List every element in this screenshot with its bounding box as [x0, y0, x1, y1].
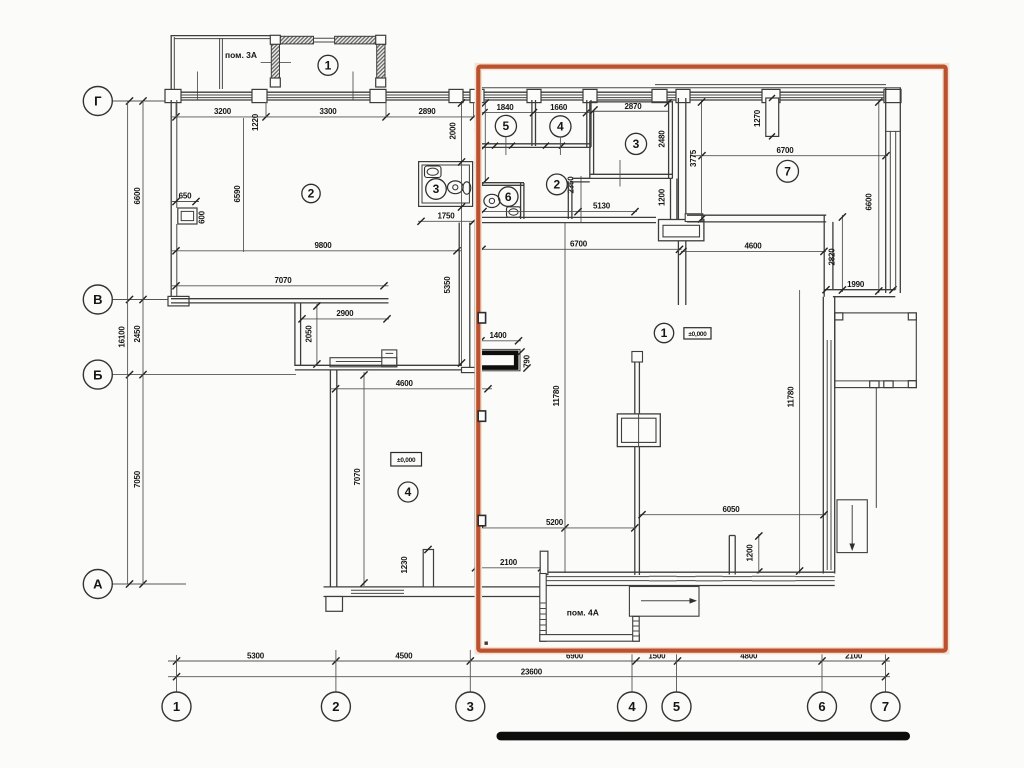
room circle 3	[625, 133, 646, 154]
dim 2350 line	[580, 176, 582, 223]
svg-text:7070: 7070	[353, 468, 362, 486]
room7 east step wall	[823, 215, 825, 297]
stub pier 1230	[423, 550, 433, 587]
hatched top band left part	[280, 36, 314, 44]
axis circle 1	[162, 692, 191, 721]
ext+tick	[470, 113, 477, 120]
room2 left wall foot	[168, 296, 189, 306]
step wall	[294, 303, 296, 366]
axis line B	[112, 374, 296, 376]
svg-text:23600: 23600	[521, 668, 543, 677]
dim 11780 left line	[564, 223, 566, 573]
terrace outline	[835, 313, 917, 388]
svg-text:5: 5	[503, 119, 510, 133]
bathroom sink	[425, 166, 442, 178]
axis line V	[112, 299, 177, 301]
dim 4600 line left	[331, 388, 492, 390]
svg-text:3: 3	[433, 182, 440, 196]
G wall inner sill right	[484, 94, 884, 96]
foot bottom-left	[326, 597, 343, 612]
terrace bottom double edge	[835, 380, 917, 382]
exterior stairs	[837, 500, 867, 553]
window slot	[696, 573, 723, 584]
svg-text:6700: 6700	[570, 240, 588, 249]
terrace corner marks	[835, 313, 843, 320]
bottom wall left part	[324, 586, 542, 588]
window slot	[752, 573, 796, 584]
dim 1200 stub line	[758, 534, 760, 574]
svg-text:1660: 1660	[550, 103, 568, 112]
svg-text:2480: 2480	[657, 130, 666, 148]
dim 2050 line	[316, 304, 318, 365]
svg-text:3: 3	[467, 699, 474, 714]
stub pier 1270	[766, 98, 779, 136]
black bar	[497, 732, 911, 741]
dim 6700 top line	[690, 155, 888, 157]
shaft side wall	[670, 179, 672, 220]
mid divider wall	[634, 353, 636, 575]
wall pier	[652, 89, 667, 102]
bottom wall right band	[542, 571, 835, 573]
svg-text:11780: 11780	[787, 386, 796, 408]
level box room4	[391, 453, 422, 467]
wall square handle 2	[478, 411, 485, 421]
bathroom toilet	[448, 181, 464, 194]
leader under 4	[559, 137, 561, 155]
svg-text:А: А	[93, 577, 103, 592]
east wall lower inner	[826, 340, 828, 570]
wall square handle 3	[478, 515, 485, 525]
axis circle 3	[456, 692, 485, 721]
svg-text:6600: 6600	[133, 187, 142, 205]
wall pier	[470, 89, 484, 102]
ext+tick	[172, 113, 179, 120]
svg-text:650: 650	[179, 192, 192, 201]
svg-text:±0,000: ±0,000	[688, 331, 707, 338]
svg-text:2: 2	[332, 699, 339, 714]
svg-text:1220: 1220	[251, 113, 260, 131]
dim 5130 line	[481, 211, 637, 213]
room circle 1 top	[318, 55, 338, 75]
svg-text:4: 4	[557, 120, 564, 134]
window gap in top band	[314, 37, 335, 39]
svg-text:600: 600	[198, 210, 207, 223]
dim 2900 line	[301, 318, 389, 320]
room3 leader line	[619, 160, 621, 187]
svg-text:Б: Б	[93, 367, 102, 382]
partition rooms4/3	[586, 100, 588, 147]
svg-text:5130: 5130	[593, 201, 611, 210]
svg-text:2870: 2870	[625, 102, 643, 111]
column box mid line	[638, 414, 640, 447]
window slot	[649, 573, 677, 584]
room circle 4	[550, 116, 571, 137]
svg-text:5350: 5350	[443, 276, 452, 294]
bottom dim tick	[467, 657, 474, 664]
corner block	[376, 78, 386, 87]
G wall extra line right	[655, 84, 886, 86]
bench inner	[336, 361, 382, 363]
svg-text:6700: 6700	[777, 146, 795, 155]
svg-text:7: 7	[882, 699, 889, 714]
svg-text:2820: 2820	[828, 248, 837, 266]
wall room1/room4 lower (under orange)	[474, 222, 476, 586]
room7 south wall	[687, 214, 826, 216]
vestibule left wall	[540, 574, 546, 642]
dim line under 1840/1660	[481, 112, 589, 114]
svg-text:2100: 2100	[500, 558, 518, 567]
wall pier	[676, 89, 690, 102]
axis circle 6	[808, 692, 837, 721]
room 3A top wall	[171, 35, 273, 37]
corner block	[270, 35, 280, 44]
room 3A left wall	[170, 36, 172, 89]
vestibule right wall	[633, 616, 640, 641]
partition rooms5/4	[531, 100, 533, 146]
extension line	[352, 72, 354, 101]
dim 2000/5350 vert line	[461, 101, 463, 365]
room3 storage walls	[589, 101, 591, 179]
jamb ticks	[492, 143, 498, 149]
wall pier	[165, 89, 181, 102]
bottom dim tick	[818, 657, 825, 664]
left segment dim line	[142, 101, 144, 584]
axis circle 2	[321, 692, 350, 721]
orange selection rectangle	[478, 67, 945, 651]
B wall foot at orange	[462, 367, 478, 372]
svg-text:4600: 4600	[745, 242, 763, 251]
dim 9800 line	[171, 250, 461, 252]
svg-text:3200: 3200	[214, 107, 232, 116]
wall pier	[884, 89, 901, 102]
terrace tabs	[870, 381, 879, 388]
shaft box inner	[663, 225, 700, 237]
svg-text:1990: 1990	[847, 280, 865, 289]
dim line 6590	[243, 118, 245, 252]
bathroom walls	[419, 162, 473, 207]
dim 6600 right line	[878, 100, 880, 293]
bench outline	[330, 358, 397, 367]
axis circle Б	[83, 360, 112, 389]
G wall inner sill left	[181, 94, 473, 96]
dim 1750 line	[418, 220, 477, 222]
east wall lower	[822, 297, 824, 574]
room circle 5	[495, 115, 516, 136]
svg-text:1400: 1400	[490, 331, 508, 340]
svg-text:6050: 6050	[723, 505, 741, 514]
svg-text:4: 4	[405, 485, 412, 499]
svg-text:3775: 3775	[689, 149, 698, 167]
wall pier	[583, 89, 597, 102]
landing arrow	[641, 600, 691, 602]
room6 sink	[507, 207, 521, 218]
wall pier	[370, 89, 386, 102]
vestibule left wall rungs	[540, 602, 546, 604]
svg-text:5: 5	[673, 699, 680, 714]
axis leader 7	[885, 650, 887, 692]
axis leader 4	[631, 650, 633, 692]
bottom dim line (total 23600)	[168, 676, 890, 678]
level box room1	[684, 328, 711, 339]
svg-text:4600: 4600	[396, 379, 414, 388]
corner block	[376, 35, 386, 44]
stairs arrow	[851, 505, 853, 545]
svg-text:9800: 9800	[315, 241, 333, 250]
B axis wall	[295, 364, 462, 366]
room4 left wall	[329, 370, 331, 587]
svg-text:3: 3	[633, 137, 640, 151]
wall pier	[252, 89, 267, 102]
room4 circle	[398, 482, 418, 502]
ext+tick	[382, 113, 389, 120]
svg-text:3300: 3300	[320, 107, 338, 116]
room 3A partition	[219, 38, 221, 89]
hatched top band right part	[335, 36, 377, 44]
dim 6700 line room1	[480, 248, 682, 250]
vestibule bottom wall	[540, 635, 640, 642]
svg-text:5300: 5300	[247, 651, 265, 660]
column box inner	[622, 418, 657, 442]
dim 2100 line	[474, 567, 543, 569]
svg-text:1840: 1840	[497, 103, 515, 112]
vestibule right wall rungs	[633, 620, 640, 622]
svg-text:7070: 7070	[275, 276, 293, 285]
bottom dim tick	[332, 657, 339, 664]
axis leader 2	[335, 650, 337, 692]
dim 7070 line	[171, 285, 389, 287]
svg-text:1: 1	[173, 699, 180, 714]
shaft box outer	[659, 220, 704, 241]
terrace leader line	[875, 388, 877, 508]
axis circle В	[83, 285, 112, 314]
svg-text:790: 790	[523, 354, 532, 367]
corner block	[270, 78, 280, 87]
room1 circle	[654, 323, 673, 342]
extension line	[197, 72, 199, 101]
wall pier	[762, 89, 780, 102]
hatched pier right	[377, 36, 385, 87]
axis leader 6	[821, 650, 823, 692]
south wall rooms2/6	[477, 216, 656, 218]
svg-text:7050: 7050	[133, 470, 142, 488]
dim 650 line	[172, 201, 199, 203]
east wall outer	[885, 88, 887, 293]
axis circle 5	[662, 692, 691, 721]
svg-text:6: 6	[818, 699, 825, 714]
leader under label	[261, 62, 291, 64]
room circle 2 small	[547, 174, 568, 195]
svg-text:1: 1	[325, 59, 332, 73]
svg-text:11780: 11780	[552, 385, 561, 407]
svg-text:2: 2	[554, 178, 561, 192]
corridor wall vert	[567, 182, 569, 220]
svg-text:6: 6	[505, 190, 512, 204]
svg-text:4: 4	[628, 699, 636, 714]
leader under 5	[505, 137, 507, 155]
dim 11780 right line	[799, 290, 801, 574]
dim 7070 vert line	[363, 372, 365, 586]
G wall top line	[171, 91, 886, 93]
axis leader 5	[676, 650, 678, 692]
svg-text:2000: 2000	[449, 122, 458, 140]
room6 circle	[498, 187, 518, 207]
axis line G	[112, 100, 171, 102]
dim 3775 line	[701, 100, 703, 222]
small box top of divider	[632, 352, 643, 363]
svg-text:1230: 1230	[400, 556, 409, 574]
svg-text:7: 7	[784, 165, 791, 179]
svg-text:1270: 1270	[753, 109, 762, 127]
dim line 3200/3300/2890	[171, 116, 477, 118]
bathroom fixture 2	[463, 182, 471, 194]
wall square handle 1	[478, 313, 485, 323]
svg-text:2: 2	[308, 187, 315, 201]
svg-text:1750: 1750	[438, 211, 456, 220]
dim 1450/1170 vert line	[484, 101, 486, 183]
svg-text:2890: 2890	[419, 107, 437, 116]
wall under rooms 5/4	[481, 143, 592, 145]
wall niche	[178, 208, 197, 224]
axis circle 4	[618, 692, 647, 721]
column box outer	[617, 414, 660, 447]
bottom dim tick	[173, 657, 180, 664]
room6 top wall	[481, 182, 524, 184]
svg-text:пом. 3А: пом. 3А	[225, 50, 257, 60]
svg-text:6600: 6600	[865, 193, 874, 211]
wall pier	[449, 89, 463, 102]
wall room1/room4 upper	[458, 223, 460, 366]
transition pier	[540, 551, 548, 574]
black duct shaft	[481, 353, 516, 368]
axis line A	[112, 583, 186, 585]
bottom dim tick	[882, 657, 889, 664]
room circle 2	[302, 184, 320, 202]
svg-text:1: 1	[661, 326, 668, 340]
G wall bottom line	[171, 99, 886, 101]
bottom dim tick	[674, 657, 681, 664]
dim 5200 line	[480, 527, 636, 529]
svg-text:1200: 1200	[745, 544, 754, 562]
axis circle 7	[871, 692, 900, 721]
svg-text:5200: 5200	[546, 518, 564, 527]
orange rect halo	[478, 67, 945, 651]
dim 2820 line	[841, 215, 843, 292]
room2 left wall	[170, 100, 172, 303]
svg-text:пом. 4А: пом. 4А	[567, 608, 599, 618]
room6 toilet	[484, 194, 500, 207]
svg-text:±0,000: ±0,000	[397, 457, 416, 464]
G wall upper line right part	[480, 87, 901, 89]
bench tab	[382, 350, 397, 367]
axis circle Г	[83, 87, 112, 116]
svg-text:6590: 6590	[233, 185, 242, 203]
east wall inner lines	[889, 131, 891, 289]
step bottom wall	[824, 289, 895, 291]
room2 bottom wall	[171, 298, 389, 300]
bottom total ticks	[173, 673, 180, 680]
bathroom circle 3	[426, 179, 447, 200]
wall pier	[527, 89, 541, 102]
svg-text:2450: 2450	[133, 325, 142, 343]
room7 circle	[777, 160, 799, 182]
ext+tick	[262, 113, 269, 120]
window lines bottom-left	[351, 588, 404, 596]
svg-text:16100: 16100	[118, 326, 127, 348]
bottom dim tick	[632, 657, 639, 664]
svg-text:2900: 2900	[336, 309, 354, 318]
svg-text:1200: 1200	[658, 188, 667, 206]
dim 4600 right line	[681, 250, 826, 252]
room6 right wall	[520, 183, 522, 219]
svg-text:2050: 2050	[305, 325, 314, 343]
stub pier 1200	[728, 536, 730, 575]
svg-text:Г: Г	[94, 94, 102, 109]
wall rooms1/7	[677, 98, 679, 305]
axis leader 1	[176, 655, 178, 692]
room3 bottom wall	[590, 173, 673, 175]
dim 1400 line	[480, 340, 521, 342]
svg-text:4500: 4500	[395, 651, 413, 660]
axis circle А	[83, 570, 112, 599]
left total dim line 16100	[127, 101, 129, 584]
dim 6050 line	[640, 514, 826, 516]
shaft top small box	[685, 214, 703, 222]
duct thin frame	[479, 349, 520, 370]
hatched pier left	[271, 36, 279, 87]
axis leader 3	[469, 650, 471, 692]
svg-text:В: В	[93, 292, 102, 307]
corridor wall horiz	[572, 177, 590, 179]
small dot on orange	[485, 642, 488, 645]
bottom dim line (segments)	[168, 660, 890, 662]
entrance landing	[629, 587, 699, 617]
